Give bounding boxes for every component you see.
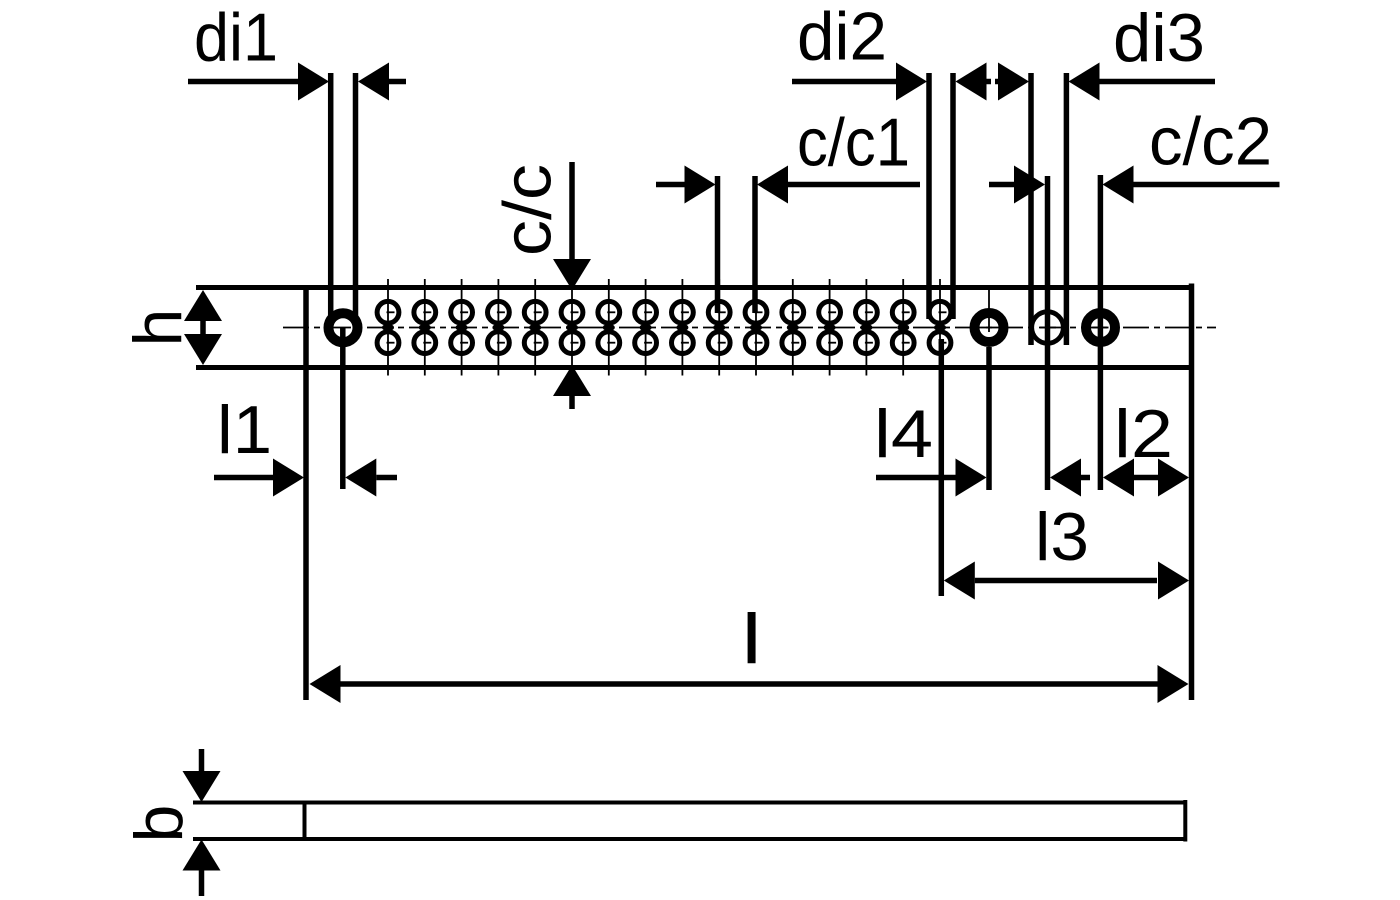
b dimension arrows (199, 749, 205, 772)
svg-text:di3: di3 (1113, 0, 1205, 76)
hole center cross dashes (upper row) (387, 311, 947, 313)
l2 dimension arrows (1103, 459, 1134, 497)
strip bottom edge (196, 365, 1194, 370)
side view bar bottom edge (193, 837, 1186, 841)
di3 dimension arrows (995, 79, 999, 85)
svg-text:c/c2: c/c2 (1149, 104, 1272, 180)
h dimension arrows (184, 290, 222, 321)
big hole 3 (l2) (1086, 313, 1115, 342)
svg-text:b: b (121, 805, 197, 843)
side view bar left edge (303, 801, 307, 842)
l1 dimension arrows (214, 475, 277, 481)
open circle hole (di3) (1032, 312, 1064, 344)
centerline (horizontal dash-dot axis of strip) (283, 327, 1216, 329)
c/c2 right extension (through hole 3) (1098, 175, 1104, 490)
l3 left extension (939, 339, 945, 596)
svg-text:c/c: c/c (490, 164, 566, 256)
strip right edge + l extension (1189, 284, 1195, 701)
l3 dimension arrows (944, 562, 975, 600)
column ticks for small holes (388, 279, 940, 376)
small holes upper row (377, 301, 951, 323)
l4 dimension arrows (876, 475, 958, 481)
strip left edge + l extension (303, 285, 309, 700)
big hole 2 (l4) (975, 313, 1004, 342)
big hole 1 (di1) (329, 313, 358, 342)
svg-text:c/c1: c/c1 (797, 105, 910, 181)
svg-text:l2: l2 (1114, 396, 1173, 472)
di1 extension lines (328, 73, 334, 324)
tangency blobs between circle rows (382, 324, 946, 331)
c/c2 left extension (through open circle) (1045, 176, 1051, 490)
l1 right extension (hole 1 centre) (340, 328, 346, 489)
di1 dimension arrows (188, 79, 299, 85)
end hole tick and cross dashes (988, 290, 990, 332)
strip top edge (196, 285, 1194, 290)
svg-text:di1: di1 (194, 0, 278, 76)
side view bar top edge (193, 801, 1186, 805)
svg-text:l: l (744, 601, 759, 677)
di3 extension lines (1028, 73, 1034, 345)
c/c1 dimension arrows (656, 182, 686, 188)
svg-text:h: h (120, 309, 196, 347)
di2 extension lines (926, 73, 932, 319)
svg-text:l3: l3 (1035, 499, 1089, 575)
c/c vertical arrows (569, 162, 575, 259)
l4 left extension (below hole 2) (986, 347, 992, 490)
c/c2 dimension arrows (989, 182, 1015, 188)
hole center cross dashes (lower row) (387, 342, 947, 344)
di2 dimension arrows (792, 79, 897, 85)
c/c1 extension lines (715, 176, 721, 313)
svg-text:l4: l4 (874, 396, 933, 472)
svg-text:di2: di2 (797, 0, 887, 75)
side view bar right edge (1183, 800, 1187, 842)
l dimension arrows (310, 665, 341, 703)
small holes lower row (377, 332, 951, 354)
svg-text:l1: l1 (217, 392, 272, 468)
